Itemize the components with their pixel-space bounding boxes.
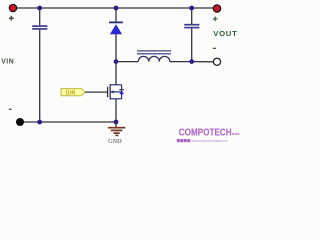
terminal VIN-	[16, 118, 24, 126]
capacitor C1 (input)	[32, 8, 47, 122]
junction: switch node / inductor	[114, 59, 119, 64]
wire gate (DR to Q1 gate)	[85, 91, 108, 93]
wire bottom rail (VIN- to GND)	[20, 121, 117, 123]
capacitor C2 (output)	[184, 8, 199, 62]
svg-text:DR: DR	[67, 90, 75, 96]
label - (VOUT negative)	[213, 48, 216, 49]
junction: top rail / C1	[37, 6, 42, 11]
junction: bottom rail / ground	[114, 120, 119, 125]
diode D1	[109, 8, 123, 85]
logo COMPOTECH Asia watermark	[177, 127, 241, 143]
wire output node rail (inductor to VOUT-)	[192, 61, 214, 63]
label + (VOUT positive)	[213, 17, 218, 22]
transistor Q1 (N-channel MOSFET)	[108, 84, 125, 99]
svg-text:www.compotechasia.com: www.compotechasia.com	[192, 139, 228, 143]
junction: output node / C2	[189, 59, 194, 64]
svg-text:GND: GND	[108, 138, 122, 145]
junction: top rail / D1	[114, 6, 119, 11]
terminal VIN+	[9, 4, 16, 11]
junction: top rail / C2	[189, 6, 194, 11]
wire Q1 source to bottom rail	[115, 99, 117, 122]
svg-text:VOUT: VOUT	[213, 29, 237, 38]
terminal VOUT+	[213, 5, 220, 12]
svg-text:VIN: VIN	[1, 58, 14, 65]
label + (VIN positive)	[9, 16, 14, 21]
junction: bottom rail / C1	[37, 120, 42, 125]
label - (VIN negative)	[9, 109, 12, 110]
svg-text:Asia: Asia	[232, 132, 240, 136]
wire top rail (VIN+ to VOUT+)	[17, 7, 213, 9]
ground GND	[108, 122, 125, 135]
inductor L1	[116, 51, 192, 62]
svg-text:COMPOTECH: COMPOTECH	[179, 127, 232, 138]
port DR (gate drive)	[61, 89, 85, 97]
terminal VOUT-	[213, 58, 220, 65]
